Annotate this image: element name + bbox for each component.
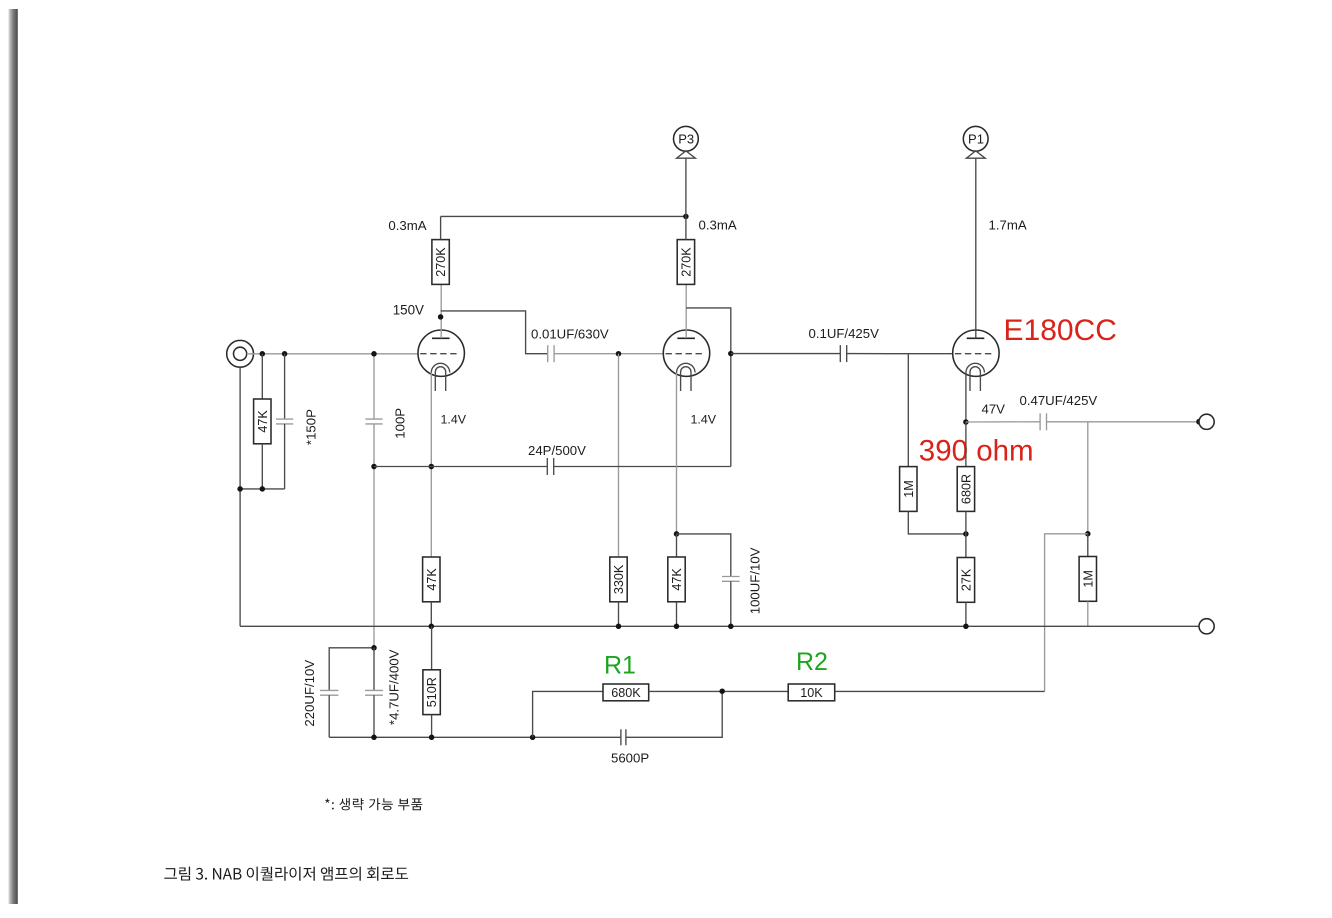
node rail 47K-V2 <box>674 624 680 630</box>
note: omittable parts (Korean) <box>325 798 422 810</box>
node rail 27K <box>963 624 969 630</box>
node V2 grid <box>616 351 622 357</box>
svg-text:1.7mA: 1.7mA <box>989 218 1027 233</box>
capacitor 100P <box>365 419 382 424</box>
wire input ground drop <box>239 367 241 626</box>
node 100P-24P <box>371 464 377 470</box>
svg-text:0.3mA: 0.3mA <box>388 218 426 233</box>
capacitor 0.47UF/425V <box>1040 413 1046 430</box>
node V3 cathode 47V <box>963 419 969 425</box>
capacitor 24P/500V <box>547 458 553 475</box>
node V2 cathode <box>674 531 680 537</box>
wire 150P top lead <box>284 354 286 419</box>
wire 4.7UF top lead <box>373 648 375 691</box>
svg-text:*4.7UF/400V: *4.7UF/400V <box>387 649 402 725</box>
capacitor *4.7UF/400V <box>365 690 383 695</box>
node rail 330K <box>616 624 622 630</box>
wire V2 cath to 100UF <box>677 534 731 577</box>
svg-text:0.3mA: 0.3mA <box>699 218 737 233</box>
svg-text:5600P: 5600P <box>611 751 649 766</box>
wire 100UF bottom lead <box>730 581 732 626</box>
wire V2 out row <box>731 353 841 355</box>
node fb 4.7UF <box>371 735 377 741</box>
wire feedback bottom <box>329 736 621 738</box>
connector output hot <box>1199 414 1214 429</box>
scan edge bar (decorative) <box>7 9 18 904</box>
wire 220UF top link <box>329 648 374 691</box>
wire 680R top lead <box>965 422 967 467</box>
wire 47K-in bottom lead <box>261 444 263 489</box>
wire V1 cathode lead <box>430 373 432 558</box>
wire 10K right <box>835 690 1045 692</box>
wire 4.7UF bottom lead <box>373 695 375 737</box>
wire C2 to V2 grid <box>554 353 664 355</box>
node 680R-27K <box>963 531 969 537</box>
resistor 1M output <box>1079 557 1096 602</box>
wire 150P bottom lead <box>284 424 286 489</box>
wire 220UF bottom lead <box>328 695 330 737</box>
svg-text:270K: 270K <box>680 247 694 277</box>
node V1 plate <box>438 314 444 320</box>
connector P1 <box>963 126 988 158</box>
node rail 47K-V1 <box>429 624 435 630</box>
capacitor 0.1UF/425V <box>840 345 846 362</box>
caption: Fig.3 NAB equalizer amp schematic (Korean) <box>164 867 408 881</box>
wire 27K bottom lead <box>965 602 967 626</box>
resistor 680R V3 cathode <box>957 467 974 512</box>
svg-text:680K: 680K <box>611 686 641 700</box>
resistor 510R <box>423 670 440 715</box>
wire fb to R1R2 junction <box>626 691 722 737</box>
wire input bottom link <box>240 488 285 490</box>
wire 680K to 10K <box>649 690 789 692</box>
input connector J1 <box>227 340 254 367</box>
triode V3 <box>953 330 999 391</box>
node link-47K <box>260 486 266 492</box>
wire V3 cathode lead <box>965 373 967 423</box>
wire V2 cath to 47K <box>676 534 678 557</box>
capacitor *150P <box>276 419 293 424</box>
svg-text:1M: 1M <box>902 480 916 498</box>
wire 24P right <box>554 466 731 468</box>
wire 1M-out to box <box>1087 534 1089 557</box>
wire to V3 grid <box>847 353 954 355</box>
svg-text:0.1UF/425V: 0.1UF/425V <box>809 326 880 341</box>
svg-text:47K: 47K <box>256 410 270 433</box>
resistor R2 10K <box>788 684 835 701</box>
wire V1 plate lead <box>440 285 442 339</box>
resistor 47K V2 cathode <box>668 557 685 602</box>
resistor 1M V3 grid <box>900 467 917 512</box>
resistor 330K V2 grid <box>610 557 627 602</box>
wire 510R bottom lead <box>431 715 433 738</box>
wire V2 plate loop <box>686 308 731 467</box>
wire 270K-1 top lead <box>440 216 442 239</box>
svg-text:0.47UF/425V: 0.47UF/425V <box>1020 393 1098 408</box>
svg-text:10K: 10K <box>800 686 823 700</box>
wire 100P top lead <box>373 354 375 419</box>
wire 47K-in top lead <box>261 354 263 399</box>
svg-text:0.01UF/630V: 0.01UF/630V <box>531 326 609 341</box>
triode V1 <box>418 330 464 391</box>
connector output ground <box>1199 619 1214 634</box>
resistor 27K <box>957 558 974 603</box>
svg-text:47K: 47K <box>670 568 684 591</box>
wire 100P lower lead <box>373 424 375 648</box>
capacitor 5600P <box>621 729 626 745</box>
svg-text:330K: 330K <box>612 564 626 594</box>
capacitor 0.01UF/630V <box>548 345 554 362</box>
resistor 47K V1 cathode <box>423 557 440 602</box>
svg-text:100P: 100P <box>393 408 408 439</box>
node fb 510R <box>429 735 435 741</box>
wire ground rail <box>240 625 1199 627</box>
svg-text:R2: R2 <box>796 648 828 676</box>
svg-text:47V: 47V <box>982 402 1006 417</box>
wire 1M-out bottom lead <box>1087 601 1089 626</box>
wire 47K-V1 bottom lead <box>430 602 432 627</box>
wire 330K bottom lead <box>618 602 620 627</box>
svg-text:*150P: *150P <box>304 409 319 445</box>
wire 47K-V2 bottom lead <box>676 602 678 627</box>
svg-text:1.4V: 1.4V <box>441 412 467 426</box>
wire P3 drop <box>685 158 687 239</box>
svg-text:270K: 270K <box>434 247 448 277</box>
resistor R1 680K <box>603 684 649 701</box>
wire 1M-out drop <box>1087 422 1089 534</box>
wire fb right link <box>1045 534 1088 692</box>
resistor 270K V2 plate <box>677 240 694 285</box>
node 1M-out top <box>1085 531 1091 537</box>
resistor 270K V1 plate <box>432 240 449 285</box>
svg-text:150V: 150V <box>393 303 424 318</box>
node V2 plate out <box>728 351 734 357</box>
svg-text:P3: P3 <box>678 131 694 146</box>
connector P3 <box>674 126 699 158</box>
svg-text:390 ohm: 390 ohm <box>919 435 1034 468</box>
svg-text:1M: 1M <box>1081 570 1095 588</box>
wire 330K drop <box>618 354 620 557</box>
node output <box>1196 419 1202 425</box>
node input-47K <box>260 351 266 357</box>
wire R1 left link <box>533 691 603 737</box>
node B+ P3 <box>683 214 689 220</box>
svg-text:680R: 680R <box>960 474 974 504</box>
svg-text:47K: 47K <box>425 568 439 591</box>
wire V2 cathode lead <box>676 373 678 534</box>
wire B+ top link <box>441 215 686 217</box>
svg-text:220UF/10V: 220UF/10V <box>302 660 317 727</box>
wire 24P left <box>374 466 547 468</box>
wire 47V row <box>966 421 1040 423</box>
svg-text:510R: 510R <box>425 677 439 707</box>
svg-text:R1: R1 <box>604 652 636 680</box>
triode V2 <box>663 330 709 391</box>
wire 510R top lead <box>431 626 433 670</box>
node fb R1left <box>530 735 536 741</box>
node R1-R2 <box>719 688 725 694</box>
capacitor 100UF/10V <box>722 577 740 582</box>
wire 1M-grid drop <box>907 354 909 467</box>
node 4.7UF top <box>371 645 377 651</box>
wire P1 drop / V3 plate lead <box>975 158 977 338</box>
resistor 47K input grid <box>254 399 271 444</box>
svg-text:E180CC: E180CC <box>1004 314 1117 347</box>
wire output row <box>1047 421 1200 423</box>
wire V2 plate lead <box>685 285 687 339</box>
svg-text:27K: 27K <box>960 568 974 591</box>
svg-text:P1: P1 <box>968 131 984 146</box>
node 100P top <box>371 351 377 357</box>
wire 1M-grid bottom <box>908 511 966 534</box>
svg-text:24P/500V: 24P/500V <box>528 443 586 458</box>
wire 680R to 27K <box>965 511 967 557</box>
svg-text:1.4V: 1.4V <box>691 412 717 426</box>
node input-150P <box>282 351 288 357</box>
node rail 100UF <box>728 624 734 630</box>
wire input row <box>247 353 421 355</box>
node V1 cath-24P <box>429 464 435 470</box>
wire V1 plate branch to C2 <box>441 311 548 354</box>
svg-text:100UF/10V: 100UF/10V <box>747 547 762 614</box>
capacitor 220UF/10V <box>320 690 338 695</box>
node link-drop <box>237 486 243 492</box>
